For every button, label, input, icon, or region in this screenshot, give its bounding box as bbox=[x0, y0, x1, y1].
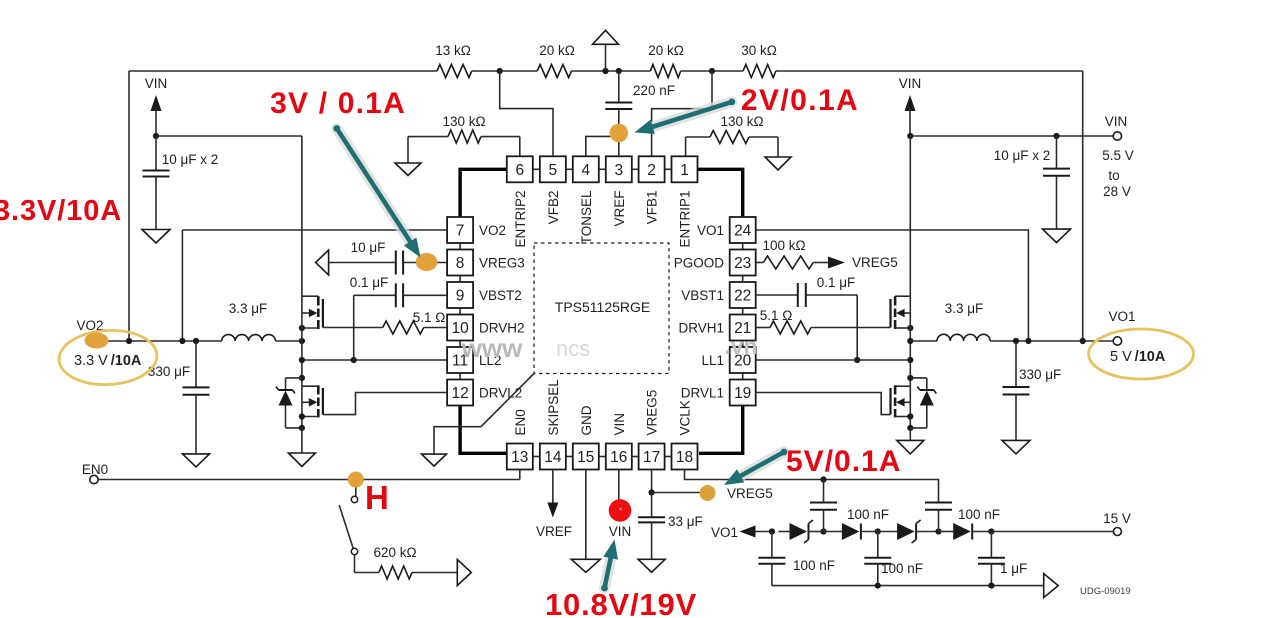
svg-text:1 μF: 1 μF bbox=[1000, 561, 1027, 576]
wire switch stub bbox=[355, 480, 357, 497]
pin label DRVH2 bbox=[479, 321, 525, 336]
pin 3 box (top) bbox=[606, 156, 632, 182]
highlight ellipse VO2 rating bbox=[58, 328, 159, 387]
diode D2 bbox=[842, 523, 878, 540]
svg-text:620 kΩ: 620 kΩ bbox=[373, 545, 416, 560]
svg-text:10.8V/19V: 10.8V/19V bbox=[545, 587, 697, 618]
wire pin 24 VO1 branch bbox=[755, 230, 1028, 341]
pin 19 box (right) bbox=[730, 380, 756, 406]
marker orange dot VO2 bbox=[85, 333, 109, 349]
svg-text:5V/0.1A: 5V/0.1A bbox=[786, 445, 901, 478]
svg-text:TPS51125RGE: TPS51125RGE bbox=[555, 299, 650, 315]
junction cp2 bbox=[820, 528, 826, 534]
wire VBST1 row bbox=[755, 294, 857, 296]
svg-text:GND: GND bbox=[579, 405, 594, 435]
wire TONSEL to VREF node bbox=[586, 136, 619, 156]
svg-text:3.3 μF: 3.3 μF bbox=[229, 301, 268, 316]
wire EN0 line bbox=[98, 470, 520, 480]
svg-text:H: H bbox=[365, 479, 389, 516]
svg-text:18: 18 bbox=[676, 449, 693, 466]
svg-text:VO1: VO1 bbox=[711, 525, 738, 540]
pin 23 box (right) bbox=[730, 250, 756, 276]
svg-text:VREG3: VREG3 bbox=[479, 256, 525, 271]
svg-text:VCLK: VCLK bbox=[678, 400, 693, 435]
transistor Q2 left low-side NFET bbox=[302, 385, 323, 417]
marker orange dot EN0 bbox=[348, 472, 364, 488]
svg-text:3.3 V /10A: 3.3 V /10A bbox=[74, 353, 142, 369]
svg-text:ENTRIP2: ENTRIP2 bbox=[513, 191, 528, 248]
junction cp bottom mid bbox=[875, 583, 881, 589]
junction LL2/inductor bbox=[299, 338, 305, 344]
junction VREG5 node bbox=[649, 489, 655, 495]
junction Q4 diode branch bbox=[907, 375, 913, 381]
svg-text:20 kΩ: 20 kΩ bbox=[539, 43, 575, 58]
junction Q1 source bbox=[299, 325, 305, 331]
capacitor C4 330 &#956;F bbox=[148, 341, 210, 454]
capacitor C6 10 &#956;F bbox=[351, 240, 403, 275]
svg-text:100 nF: 100 nF bbox=[881, 561, 923, 576]
label VO1 rating bbox=[1110, 349, 1166, 365]
pin label VO2 bbox=[479, 223, 506, 238]
svg-text:2: 2 bbox=[647, 162, 656, 179]
ground for C4 bbox=[183, 454, 210, 467]
capacitor C13 100 nF bbox=[864, 532, 923, 586]
pin 4 box (top) bbox=[573, 156, 599, 182]
wire top rail VO2-to-VO1 resistor string bbox=[129, 70, 1083, 72]
svg-text:SKIPSEL: SKIPSEL bbox=[546, 379, 561, 436]
pin label ENTRIP1 bbox=[678, 191, 693, 248]
pin label LL1 bbox=[701, 353, 724, 368]
svg-text:19: 19 bbox=[734, 385, 751, 402]
op IC U1 outline bold bottom-left bbox=[460, 406, 507, 454]
terminal EN0 bbox=[82, 462, 108, 484]
svg-text:5: 5 bbox=[549, 162, 558, 179]
ground for C8 bbox=[1002, 440, 1030, 454]
node VREG5 arrow at PGOOD bbox=[828, 255, 898, 270]
pin label VBST1 bbox=[681, 288, 724, 303]
switch S1 to 620k bbox=[339, 496, 379, 572]
pin 5 box (top) bbox=[540, 156, 566, 182]
capacitor C7 0.1 &#956;F bbox=[798, 275, 855, 307]
svg-text:10 μF x 2: 10 μF x 2 bbox=[994, 148, 1051, 163]
capacitor C9 33 &#956;F bbox=[638, 493, 703, 560]
marker orange dot VREG5 bbox=[700, 485, 716, 501]
terminal VIN input bbox=[1102, 114, 1134, 199]
svg-text:13: 13 bbox=[511, 449, 528, 466]
wire VIN right to right high-side FET drain bbox=[909, 136, 911, 296]
svg-text:100 nF: 100 nF bbox=[793, 558, 835, 573]
svg-text:5.1 Ω: 5.1 Ω bbox=[760, 308, 793, 323]
svg-text:30 kΩ: 30 kΩ bbox=[741, 43, 777, 58]
label UDG-09019 bbox=[1080, 586, 1131, 597]
junction LL2/diode branch bbox=[299, 375, 305, 381]
svg-text:VFB2: VFB2 bbox=[546, 191, 561, 225]
junction LL2/VBST2 bbox=[351, 357, 357, 363]
svg-text:2V/0.1A: 2V/0.1A bbox=[741, 84, 859, 117]
pin label VREF bbox=[612, 191, 627, 227]
pin 6 box (top) bbox=[507, 156, 533, 182]
junction VIN left bbox=[153, 133, 159, 139]
svg-text:4: 4 bbox=[581, 162, 590, 179]
terminal 15 V bbox=[1103, 511, 1131, 536]
svg-text:100 nF: 100 nF bbox=[958, 507, 1000, 522]
pin 11 box (left) bbox=[447, 347, 473, 373]
svg-text:23: 23 bbox=[734, 255, 751, 272]
transistor Q4 right low-side NFET bbox=[891, 385, 911, 417]
transistor Q1 left high-side NFET bbox=[302, 296, 323, 329]
pin label DRVL2 bbox=[479, 386, 522, 401]
junction power stem bbox=[602, 68, 608, 74]
ground for C2 bbox=[142, 230, 170, 244]
svg-text:ncs: ncs bbox=[556, 336, 590, 361]
svg-text:5.5 V: 5.5 V bbox=[1102, 148, 1134, 163]
junction cp bottom right bbox=[988, 583, 994, 589]
svg-text:www: www bbox=[461, 333, 523, 363]
svg-text:ENTRIP1: ENTRIP1 bbox=[678, 191, 693, 248]
junction VO1/pin24 bbox=[1025, 338, 1031, 344]
junction VO2/C4 branch bbox=[193, 338, 199, 344]
svg-text:100 kΩ: 100 kΩ bbox=[762, 238, 805, 253]
junction VIN right bbox=[907, 133, 913, 139]
pin 12 box (left) bbox=[447, 380, 473, 406]
wire bottom pin-box links bbox=[533, 456, 672, 458]
ground left FET source bbox=[288, 428, 315, 467]
svg-text:10 μF: 10 μF bbox=[351, 240, 386, 255]
capacitor C11 100 nF bbox=[925, 500, 1000, 532]
junction cp3 bbox=[875, 528, 881, 534]
svg-text:VO1: VO1 bbox=[1108, 309, 1135, 324]
resistor R4 30 k&#937; bbox=[741, 43, 777, 78]
annotation arrow 5V/0.1A bbox=[724, 449, 787, 485]
diode D5 body diode left bbox=[276, 378, 302, 428]
svg-text:5.1 Ω: 5.1 Ω bbox=[413, 310, 446, 325]
pin 22 box (right) bbox=[730, 282, 756, 308]
svg-text:220 nF: 220 nF bbox=[633, 83, 675, 98]
wire VREG3 row bbox=[329, 262, 448, 264]
annotation text 5V/0.1A bbox=[786, 445, 901, 478]
wire thermal pad diagonal bbox=[481, 374, 534, 427]
pin label VREG3 bbox=[479, 256, 525, 271]
pin label VO1 bbox=[697, 223, 724, 238]
ground for C9 bbox=[638, 559, 665, 572]
svg-text:LL1: LL1 bbox=[701, 353, 724, 368]
svg-text:130 kΩ: 130 kΩ bbox=[442, 114, 485, 129]
svg-text:17: 17 bbox=[643, 449, 660, 466]
junction VO1/C8 bbox=[1013, 338, 1019, 344]
svg-text:15 V: 15 V bbox=[1103, 511, 1131, 526]
junction Q3 source bbox=[907, 325, 913, 331]
capacitor C14 1 &#956;F bbox=[978, 532, 1027, 586]
svg-text:to: to bbox=[1108, 168, 1119, 183]
marker orange dot VREG3 bbox=[416, 253, 438, 271]
pin label TONSEL bbox=[579, 190, 594, 244]
junction LL2 node bbox=[299, 357, 305, 363]
svg-text:VO2: VO2 bbox=[479, 223, 506, 238]
junction VFB2 tap bbox=[497, 68, 503, 74]
svg-text:16: 16 bbox=[610, 449, 627, 466]
decorative watermark bbox=[461, 333, 758, 363]
wire cp bottom rail bbox=[772, 585, 1044, 587]
resistor R5 130 k&#937; (ENTRIP2) bbox=[408, 114, 520, 163]
annotation text 3.3V/10A bbox=[0, 195, 122, 227]
wire DRVL2 gate path bbox=[323, 393, 447, 415]
resistor R8 100 k&#937; bbox=[755, 238, 828, 269]
pin label DRVL1 bbox=[681, 386, 724, 401]
ground for C3 bbox=[1043, 229, 1071, 243]
svg-text:15: 15 bbox=[577, 449, 594, 466]
ground for R6 bbox=[765, 157, 791, 170]
svg-text:10 μF x 2: 10 μF x 2 bbox=[162, 152, 219, 167]
svg-text:1: 1 bbox=[680, 162, 689, 179]
capacitor C1 220 nF bbox=[605, 71, 675, 156]
svg-text:VFB1: VFB1 bbox=[645, 191, 660, 225]
wire pin 14 SKIPSEL to VREF bbox=[536, 470, 572, 540]
capacitor C8 330 &#956;F bbox=[1003, 341, 1062, 440]
op IC U1 part name bbox=[555, 299, 650, 315]
pin 9 box (left) bbox=[447, 282, 473, 308]
resistor R2 20 k&#937; bbox=[537, 43, 575, 78]
pin 13 box (bottom) bbox=[507, 444, 533, 470]
node VO1 output rail bbox=[990, 340, 1113, 342]
marker orange dot VREF bbox=[610, 124, 629, 143]
capacitor C12 100 nF bbox=[758, 532, 835, 586]
pin 16 box (bottom) bbox=[606, 444, 632, 470]
resistor R6 130 k&#937; (ENTRIP1) bbox=[686, 114, 778, 157]
annotation text H bbox=[365, 479, 389, 516]
svg-text:TONSEL: TONSEL bbox=[579, 190, 594, 244]
wire cp seg3 bbox=[878, 531, 897, 533]
capacitor C2 10 &#956;F x 2 bbox=[143, 136, 219, 230]
junction C3 tap bbox=[1053, 133, 1059, 139]
ground for R5 bbox=[395, 163, 421, 176]
svg-text:24: 24 bbox=[734, 223, 752, 240]
wire left frame vertical (VO2 net) bbox=[128, 71, 130, 341]
wire right pin-box links bbox=[742, 243, 744, 380]
svg-text:0.1 μF: 0.1 μF bbox=[817, 275, 856, 290]
svg-text:VO1: VO1 bbox=[697, 223, 724, 238]
pin 10 box (left) bbox=[447, 315, 473, 341]
capacitor C10 100 nF bbox=[810, 480, 889, 532]
wire VBST2 branch bbox=[354, 295, 396, 360]
terminal VO1 output bbox=[1108, 309, 1135, 345]
annotation text 2V/0.1A bbox=[741, 84, 859, 117]
wire pin 15 GND bbox=[585, 470, 587, 560]
pin 24 box (right) bbox=[730, 217, 756, 243]
transistor Q3 right high-side NFET bbox=[891, 296, 911, 329]
capacitor C3 10 &#956;F x 2 bbox=[994, 136, 1070, 229]
svg-text:EN0: EN0 bbox=[513, 409, 528, 435]
pin 1 box (top) bbox=[672, 156, 698, 182]
power symbol VREG3 arrow bbox=[316, 250, 329, 275]
wire LL2 to pin 11 bbox=[302, 359, 447, 361]
label VREG5 node bbox=[727, 486, 773, 501]
power symbol after R10 bbox=[457, 560, 471, 586]
wire pin 17 VREG5 bbox=[651, 470, 653, 493]
wire cp to 15V terminal bbox=[991, 531, 1113, 533]
junction LL1 node bbox=[907, 357, 913, 363]
marker red dot VIN pin16 bbox=[609, 499, 632, 522]
svg-text:UDG-09019: UDG-09019 bbox=[1080, 586, 1131, 597]
svg-text:5 V /10A: 5 V /10A bbox=[1110, 349, 1166, 365]
op IC U1 outline bold top-left bbox=[460, 169, 507, 217]
pin label EN0 bbox=[513, 409, 528, 435]
diode D6 body diode right bbox=[910, 378, 936, 428]
pin 18 box (bottom) bbox=[672, 444, 698, 470]
junction Q2 source bbox=[299, 413, 305, 419]
pin label VBST2 bbox=[479, 288, 522, 303]
svg-text:100 nF: 100 nF bbox=[847, 507, 889, 522]
wire VIN left to left high-side FET drain bbox=[156, 136, 302, 296]
wire VFB1 branch to pin 2 bbox=[652, 71, 712, 156]
junction cp4 bbox=[935, 528, 941, 534]
svg-text:VBST2: VBST2 bbox=[479, 288, 522, 303]
junction LL1/inductor bbox=[907, 338, 913, 344]
wire cp seg2 bbox=[820, 531, 842, 533]
power symbol cp bottom bbox=[1044, 574, 1059, 598]
resistor R7 5.1 &#937; bbox=[323, 310, 447, 334]
junction LL1/VBST1 bbox=[854, 357, 860, 363]
svg-text:9: 9 bbox=[456, 288, 465, 305]
pin label LL2 bbox=[479, 353, 502, 368]
pin 21 box (right) bbox=[730, 315, 756, 341]
svg-text:PGOOD: PGOOD bbox=[674, 256, 725, 271]
resistor R9 5.1 &#937; bbox=[755, 308, 890, 334]
annotation arrow 10.8V/19V bbox=[601, 540, 618, 592]
pin label VIN bbox=[612, 413, 627, 436]
pin label VFB2 bbox=[546, 191, 561, 225]
power symbol above TONSEL divider bbox=[593, 30, 619, 71]
pin label ENTRIP2 bbox=[513, 191, 528, 248]
pin 8 box (left) bbox=[447, 250, 473, 276]
wire thermal pad to ground bbox=[434, 427, 481, 454]
pin label VFB1 bbox=[645, 191, 660, 225]
annotation arrow 2V/0.1A bbox=[635, 99, 736, 135]
pin 20 box (right) bbox=[730, 347, 756, 373]
svg-text:VREG5: VREG5 bbox=[645, 390, 660, 436]
wire pin 16 VIN bbox=[609, 470, 632, 540]
svg-text:EN0: EN0 bbox=[82, 462, 108, 477]
label VO2 terminal bbox=[76, 318, 103, 333]
wire VBST1 to LL1 bbox=[856, 295, 858, 360]
junction Q4 diode return bbox=[907, 425, 913, 431]
junction cp1 bbox=[769, 528, 775, 534]
ground thermal pad bbox=[422, 454, 447, 466]
annotation text 10.8V/19V bbox=[545, 587, 697, 618]
svg-text:6: 6 bbox=[515, 162, 524, 179]
highlight ellipse VO1 rating bbox=[1089, 329, 1194, 379]
svg-text:VIN: VIN bbox=[145, 76, 168, 91]
pin 7 box (left) bbox=[447, 217, 473, 243]
op IC U1 dashed die outline bbox=[534, 243, 669, 374]
inductor L2 3.3 &#956;F bbox=[222, 301, 276, 341]
svg-text:13 kΩ: 13 kΩ bbox=[435, 43, 471, 58]
wire VIN right rail to terminal bbox=[910, 135, 1113, 137]
junction VO2/pin7 branch bbox=[179, 338, 185, 344]
svg-text:VREG5: VREG5 bbox=[852, 255, 898, 270]
wire DRVL1 gate path bbox=[755, 393, 890, 415]
junction 220nF tap bbox=[616, 68, 622, 74]
resistor R10 620 k&#937; bbox=[373, 545, 457, 579]
svg-text:VIN: VIN bbox=[609, 524, 632, 539]
svg-text:28 V: 28 V bbox=[1103, 184, 1131, 199]
junction VO2/frame bbox=[126, 338, 132, 344]
svg-text:3.3V/10A: 3.3V/10A bbox=[0, 195, 122, 227]
capacitor C5 0.1 &#956;F bbox=[350, 275, 447, 307]
svg-text:VIN: VIN bbox=[612, 413, 627, 436]
node VIN right marker bbox=[899, 76, 922, 136]
wire pin 18 VCLK to charge pump bbox=[685, 470, 939, 500]
svg-text:VBST1: VBST1 bbox=[681, 288, 724, 303]
node VO1 arrow charge pump bbox=[711, 525, 772, 540]
node VIN left marker bbox=[145, 76, 168, 136]
pin label VREG5 bbox=[645, 390, 660, 436]
wire pin 7 VO2 to output rail bbox=[182, 230, 447, 341]
junction cp5 bbox=[988, 528, 994, 534]
svg-text:33 μF: 33 μF bbox=[668, 514, 703, 529]
wire LL1 column bbox=[909, 296, 911, 428]
resistor R1 13 k&#937; bbox=[435, 43, 472, 78]
annotation arrow 3V/0.1A bbox=[333, 125, 420, 257]
label VO2 rating bbox=[74, 353, 142, 369]
svg-text:3: 3 bbox=[614, 162, 623, 179]
pin label SKIPSEL bbox=[546, 379, 561, 436]
wire LL1 to pin 20 bbox=[755, 359, 910, 361]
wire VREG5 stub bbox=[652, 492, 700, 494]
op IC U1 outline bold top-right bbox=[698, 169, 743, 217]
annotation text 3V / 0.1A bbox=[270, 87, 406, 120]
svg-text:VIN: VIN bbox=[899, 76, 922, 91]
wire VFB2 branch to pin 5 bbox=[500, 71, 553, 156]
svg-text:7: 7 bbox=[456, 223, 465, 240]
svg-text:3.3 μF: 3.3 μF bbox=[945, 301, 984, 316]
diode D3 schottky bbox=[897, 520, 938, 543]
pin label GND bbox=[579, 405, 594, 435]
svg-text:.vn: .vn bbox=[724, 333, 757, 359]
pin 17 box (bottom) bbox=[639, 444, 665, 470]
svg-text:330 μF: 330 μF bbox=[1019, 367, 1061, 382]
svg-text:8: 8 bbox=[456, 255, 465, 272]
diode D1 schottky bbox=[779, 520, 820, 543]
node VO2 output rail bbox=[100, 340, 302, 342]
pin label PGOOD bbox=[674, 256, 725, 271]
wire LL2 column bbox=[301, 296, 303, 428]
svg-text:0.1 μF: 0.1 μF bbox=[350, 275, 389, 290]
svg-text:DRVL1: DRVL1 bbox=[681, 386, 724, 401]
svg-text:3V / 0.1A: 3V / 0.1A bbox=[270, 87, 406, 120]
resistor R3 20 k&#937; bbox=[648, 43, 684, 78]
svg-text:DRVH1: DRVH1 bbox=[678, 321, 724, 336]
svg-text:12: 12 bbox=[451, 385, 468, 402]
pin 15 box (bottom) bbox=[573, 444, 599, 470]
pin label DRVH1 bbox=[678, 321, 724, 336]
svg-text:14: 14 bbox=[544, 449, 562, 466]
pin label VCLK bbox=[678, 400, 693, 435]
svg-text:22: 22 bbox=[734, 288, 751, 305]
pin 2 box (top) bbox=[639, 156, 665, 182]
ground pin 15 bbox=[571, 559, 600, 572]
ground right FET source bbox=[897, 428, 924, 454]
junction VO1/frame bbox=[1080, 338, 1086, 344]
svg-text:DRVL2: DRVL2 bbox=[479, 386, 522, 401]
svg-text:VIN: VIN bbox=[1105, 114, 1128, 129]
svg-text:VREG5: VREG5 bbox=[727, 486, 773, 501]
junction Q4 source bbox=[907, 413, 913, 419]
wire cp seg4 bbox=[939, 531, 954, 533]
wire top pin-box links bbox=[533, 168, 672, 170]
junction Q2 diode return bbox=[299, 425, 305, 431]
svg-text:20 kΩ: 20 kΩ bbox=[648, 43, 684, 58]
svg-text:VREF: VREF bbox=[536, 524, 572, 539]
